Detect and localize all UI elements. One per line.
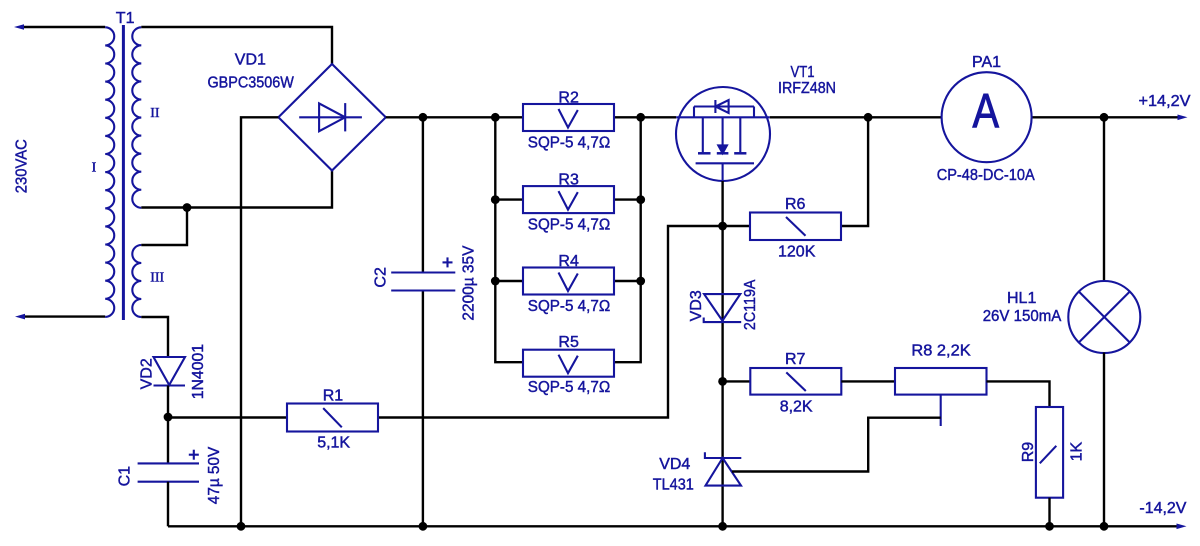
svg-text:R5: R5: [558, 334, 579, 351]
svg-text:1N4001: 1N4001: [190, 344, 207, 400]
bridge rectifier VD1: [278, 64, 385, 171]
svg-text:T1: T1: [116, 10, 135, 27]
transformer T1 winding III: [132, 245, 141, 317]
svg-text:8,2K: 8,2K: [780, 398, 813, 415]
plus sign C2: [443, 257, 453, 267]
svg-text:II: II: [150, 106, 160, 121]
svg-text:C2: C2: [373, 267, 390, 288]
wire bank left vertical: [495, 117, 523, 362]
shunt regulator VD4 TL431: [705, 452, 741, 485]
node center tap junction: [183, 203, 192, 212]
capacitor C2 wires: [422, 117, 424, 272]
potentiometer R8: [895, 368, 987, 426]
svg-text:2200µ 35V: 2200µ 35V: [460, 245, 477, 320]
svg-text:SQP-5 4,7Ω: SQP-5 4,7Ω: [528, 134, 610, 151]
node bank left top: [491, 113, 500, 122]
wire HL1 bottom: [1103, 353, 1105, 527]
node C2 bottom: [419, 522, 428, 531]
wire R8 right to R9 top: [987, 381, 1050, 407]
svg-text:R7: R7: [785, 351, 806, 368]
wire node to R7: [723, 380, 751, 382]
node gate junction: [718, 222, 727, 231]
wire VD2 to node: [167, 386, 169, 418]
wire node to C1: [167, 417, 169, 463]
wire AC bottom-left: [23, 315, 105, 317]
resistor R4: [523, 268, 614, 295]
transformer T1 winding II: [132, 27, 141, 208]
svg-text:III: III: [150, 270, 164, 285]
wire gate node down through VD3 VD4 to bottom rail: [721, 226, 723, 526]
wire bottom rail: [168, 525, 1178, 527]
wire R4 left: [495, 280, 523, 282]
svg-text:230VAC: 230VAC: [14, 139, 31, 193]
svg-text:VD1: VD1: [235, 52, 266, 69]
wire HL1 top: [1103, 117, 1105, 281]
node bank left R3: [491, 195, 500, 204]
svg-text:HL1: HL1: [1007, 290, 1036, 307]
plus sign C1: [189, 450, 199, 460]
wire R3 left: [495, 198, 523, 200]
wire VT1 gate down: [721, 181, 723, 226]
arrow -14,2V: [1177, 524, 1187, 530]
wire C1 bottom to rail: [167, 482, 169, 527]
node bank right R3: [636, 195, 645, 204]
svg-text:C1: C1: [117, 466, 134, 487]
wire winding III bottom to VD2: [141, 317, 168, 357]
svg-text:R9: R9: [1020, 442, 1037, 463]
wire center tap to winding III top: [141, 208, 187, 246]
arrow AC top-left: [14, 24, 24, 30]
svg-text:R1: R1: [323, 388, 344, 405]
node bank left R4: [491, 277, 500, 286]
wire winding II top to bridge top: [141, 27, 332, 64]
wire feedback R1 to gate node: [378, 226, 723, 418]
transformer T1 winding I: [105, 27, 114, 317]
wire winding II bottom to bridge bottom: [141, 170, 332, 208]
wire AC top-left: [22, 26, 105, 28]
svg-text:VT1: VT1: [791, 64, 815, 81]
svg-text:IRFZ48N: IRFZ48N: [778, 80, 836, 97]
resistor R7: [750, 368, 841, 395]
node R7 junction: [718, 377, 727, 386]
wire R6 right up to rail: [841, 117, 868, 226]
svg-text:R6: R6: [785, 196, 806, 213]
svg-text:R8 2,2K: R8 2,2K: [911, 343, 971, 360]
svg-text:TL431: TL431: [653, 477, 694, 494]
node bank right R4: [636, 277, 645, 286]
wire main rail bridge to R2: [386, 116, 523, 118]
svg-text:GBPC3506W: GBPC3506W: [208, 75, 295, 92]
transformer T1 core: [122, 25, 125, 320]
svg-text:26V 150mA: 26V 150mA: [983, 308, 1062, 325]
ammeter PA1: [942, 72, 1032, 162]
resistor R2: [523, 104, 614, 131]
svg-text:1K: 1K: [1069, 442, 1086, 462]
svg-text:120K: 120K: [778, 244, 816, 261]
resistor R6: [750, 213, 841, 241]
svg-text:I: I: [92, 161, 97, 176]
node R6 top: [864, 113, 873, 122]
wire gate node to R6: [723, 225, 750, 227]
svg-text:R3: R3: [558, 171, 579, 188]
capacitor C2: [391, 273, 455, 291]
svg-text:VD3: VD3: [688, 290, 705, 321]
svg-text:5,1K: 5,1K: [317, 435, 350, 452]
wire R3 right: [614, 198, 641, 200]
MOSFET VT1: [676, 87, 770, 181]
wire R9 bottom to rail: [1048, 498, 1050, 527]
node C2 top: [419, 113, 428, 122]
node HL1 top: [1100, 113, 1109, 122]
lamp HL1: [1068, 281, 1140, 353]
wire main rail PA1 to output: [1032, 116, 1179, 118]
capacitor C1: [138, 463, 199, 481]
svg-text:VD4: VD4: [659, 456, 690, 473]
svg-text:47µ 50V: 47µ 50V: [206, 446, 223, 504]
wire TL431 ref to R8 wiper: [732, 418, 941, 472]
svg-text:SQP-5 4,7Ω: SQP-5 4,7Ω: [528, 379, 610, 396]
wire bank right vertical: [614, 117, 641, 362]
wire R4 right: [614, 280, 641, 282]
diode VD2: [154, 357, 186, 386]
svg-text:VD2: VD2: [139, 358, 156, 389]
arrow +14,2V: [1178, 115, 1188, 121]
svg-text:2C119A: 2C119A: [742, 279, 759, 330]
node bridge minus bottom: [237, 522, 246, 531]
resistor R1: [287, 404, 378, 432]
node R9 bottom: [1045, 522, 1054, 531]
svg-text:-14,2V: -14,2V: [1139, 500, 1186, 517]
svg-text:R2: R2: [558, 89, 579, 106]
node VD4 bottom: [718, 522, 727, 531]
svg-text:A: A: [972, 85, 999, 138]
wire bridge left vertex to bottom rail: [241, 117, 278, 526]
node VD2 C1 R1: [164, 413, 173, 422]
arrow AC bottom-left: [15, 314, 25, 320]
svg-text:SQP-5 4,7Ω: SQP-5 4,7Ω: [528, 298, 610, 315]
svg-text:CP-48-DC-10A: CP-48-DC-10A: [937, 167, 1035, 184]
svg-text:R4: R4: [558, 253, 579, 270]
wire main rail VT1 to PA1: [770, 116, 942, 118]
wire R7 to R8: [841, 380, 895, 382]
zener diode VD3: [704, 294, 742, 322]
resistor R3: [523, 186, 614, 213]
svg-text:SQP-5 4,7Ω: SQP-5 4,7Ω: [528, 216, 610, 233]
node HL1 bottom: [1100, 522, 1109, 531]
svg-text:PA1: PA1: [972, 54, 1001, 71]
svg-text:+14,2V: +14,2V: [1139, 93, 1191, 110]
node bank right top: [636, 113, 645, 122]
wire main rail R2 to VT1: [614, 116, 676, 118]
wire node to R1: [168, 416, 287, 418]
resistor R5: [523, 350, 614, 377]
resistor R9: [1036, 407, 1063, 498]
